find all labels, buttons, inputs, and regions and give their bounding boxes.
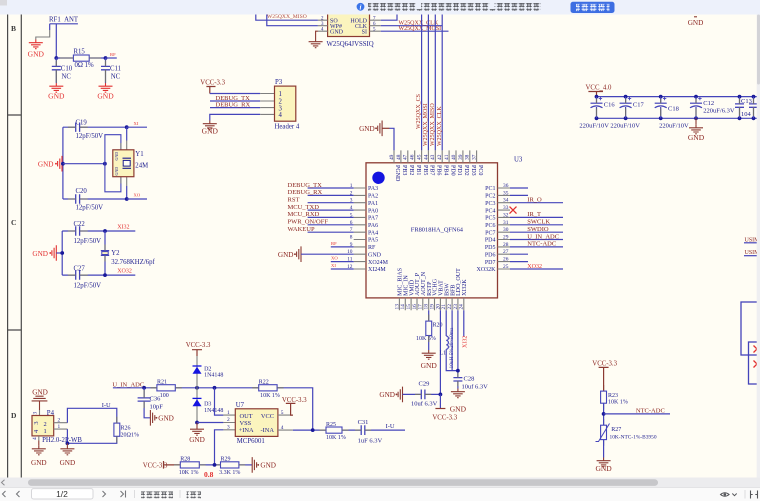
node junction (pin1/gnd) <box>66 441 70 445</box>
svg-text:GND: GND <box>158 414 174 422</box>
wire pin4 to R25 <box>293 429 326 431</box>
wire pin1 <box>210 93 260 95</box>
svg-text:VSS: VSS <box>240 420 252 427</box>
node junction <box>104 56 108 60</box>
svg-text:PA0: PA0 <box>368 208 378 214</box>
svg-text:10K 1%: 10K 1% <box>179 470 199 476</box>
svg-text:GND: GND <box>114 167 119 176</box>
svg-text:24: 24 <box>459 304 465 310</box>
svg-text:W25QXX_MOSI: W25QXX_MOSI <box>423 103 429 146</box>
crystal Y2 32.768KHZ body <box>101 250 156 266</box>
svg-text:GND: GND <box>31 459 47 467</box>
wire R25 to C31 <box>342 429 361 431</box>
net label DEBUG_RX wire (U3 pin2) <box>288 189 354 196</box>
svg-text:0Ω 1%: 0Ω 1% <box>75 62 95 69</box>
svg-text:PD2: PD2 <box>463 165 469 176</box>
net label XO32 wire (pin25) <box>510 264 563 270</box>
svg-text:SWCLK: SWCLK <box>527 219 550 226</box>
net label DEBUG_RX wire <box>210 102 260 109</box>
node junction <box>60 251 64 255</box>
svg-text:PB4: PB4 <box>442 165 448 175</box>
svg-text:RF: RF <box>110 52 116 57</box>
flash GND pin to ground <box>316 31 318 38</box>
wire BSW pin21 down <box>445 310 447 336</box>
svg-text:GND: GND <box>330 30 344 36</box>
ground (C29 left) <box>379 387 402 403</box>
crystal Y1 24M body <box>113 150 148 177</box>
svg-text:R22: R22 <box>259 379 269 385</box>
svg-text:GND: GND <box>189 436 205 444</box>
svg-text:PD6: PD6 <box>485 252 496 258</box>
svg-text:GND: GND <box>97 92 114 101</box>
wire W25QXX_MISO vertical <box>430 14 436 150</box>
svg-text:PWR_ON/OFF: PWR_ON/OFF <box>288 219 329 226</box>
capacitor C31 leads <box>355 429 371 431</box>
svg-text:25: 25 <box>503 264 509 270</box>
svg-text:XI24M: XI24M <box>368 267 386 273</box>
svg-text:12pF/50V: 12pF/50V <box>76 133 104 140</box>
svg-text:PC1: PC1 <box>485 186 495 192</box>
svg-text:3.3K 1%: 3.3K 1% <box>219 470 240 476</box>
net label SWCLK wire (pin31) <box>510 219 563 226</box>
svg-text:1: 1 <box>227 410 230 416</box>
ground (Y1 shield) <box>38 156 62 172</box>
net label MCU_TXD wire (U3 pin4) <box>288 204 354 211</box>
ground (P3) <box>202 121 219 136</box>
svg-text:VCC_4.0: VCC_4.0 <box>586 85 612 92</box>
crystal Y2 vertical wire <box>104 231 106 275</box>
ground (Y2) <box>32 245 56 261</box>
thermistor R27 10K-NTC-1%-B3950 <box>596 424 657 442</box>
wire R27 to gnd <box>603 440 605 458</box>
node junction (NTC-ADC) <box>602 412 606 416</box>
capacitor (right edge, cut) <box>749 97 758 119</box>
wire U3 pin27 <box>510 253 528 255</box>
resistor R15 0R 1% <box>73 49 94 69</box>
svg-text:1uF 6.3V: 1uF 6.3V <box>358 437 383 444</box>
svg-text:8: 8 <box>350 235 353 241</box>
svg-text:43: 43 <box>430 154 436 160</box>
svg-text:-INA: -INA <box>261 427 275 434</box>
opamp U7 pin stubs (left) <box>223 415 235 430</box>
wire +INA down to divider <box>215 430 224 465</box>
capacitor C36 10pF <box>138 388 164 418</box>
ground (NTC) <box>595 458 612 474</box>
flash pin stubs <box>318 20 381 31</box>
svg-text:100: 100 <box>160 393 169 399</box>
svg-text:34: 34 <box>503 198 509 204</box>
svg-text:RF: RF <box>368 245 376 251</box>
bus junctions <box>595 95 756 121</box>
wire R21 to clamp node <box>175 387 258 389</box>
node junction (-INA) <box>311 428 315 432</box>
svg-text:R28: R28 <box>180 456 190 462</box>
svg-text:XO32: XO32 <box>117 269 132 275</box>
ground (PGND pin49) <box>359 121 382 137</box>
U7 right pin numbers <box>281 410 284 431</box>
crystal shield loop wires <box>105 135 121 192</box>
wire opamp OUT up to node <box>215 388 224 415</box>
svg-text:L1: L1 <box>440 351 447 357</box>
wire U3 pin26 <box>510 261 528 263</box>
node junction <box>103 273 107 277</box>
U3 left pin stubs <box>354 188 366 269</box>
svg-text:46: 46 <box>410 154 416 160</box>
svg-text:VCC: VCC <box>261 413 274 420</box>
svg-text:PC4: PC4 <box>485 208 495 214</box>
svg-text:10uf 6.3V: 10uf 6.3V <box>462 384 489 391</box>
wire LDO_OUT pin23 down <box>457 310 459 377</box>
net label XO wire <box>127 193 147 199</box>
crystal XI/XO vertical wire <box>126 127 128 199</box>
svg-text:10K 1%: 10K 1% <box>260 393 280 399</box>
svg-text:2: 2 <box>227 417 230 423</box>
svg-text:SWDIO: SWDIO <box>527 226 549 233</box>
resistor R29 leads <box>217 464 246 466</box>
svg-text:0.8: 0.8 <box>204 470 214 479</box>
svg-text:NTC-ADC: NTC-ADC <box>527 241 556 248</box>
U3 body <box>366 163 498 298</box>
wire SI with net label W25QXX_MOSI <box>381 26 449 32</box>
ground (P4 pin1) <box>60 443 76 467</box>
svg-text:MCU_TXD: MCU_TXD <box>288 204 320 211</box>
svg-text:R29: R29 <box>221 456 231 462</box>
svg-text:GND: GND <box>359 125 375 133</box>
svg-text:36: 36 <box>503 183 509 189</box>
wire R28-R29 <box>199 464 220 466</box>
svg-text:3: 3 <box>33 421 40 424</box>
net label MCU_RXD wire (U3 pin5) <box>288 211 354 218</box>
capacitor C11 leads <box>105 61 107 83</box>
svg-text:2: 2 <box>58 418 61 424</box>
svg-text:PB2: PB2 <box>408 165 414 175</box>
wire U3 pin36 <box>510 187 528 189</box>
svg-text:30: 30 <box>503 227 509 233</box>
svg-text:4: 4 <box>281 425 284 431</box>
svg-text:PC7: PC7 <box>485 230 495 236</box>
wire CLK with net label W25QXX_CLK <box>381 20 442 26</box>
svg-text:PC6: PC6 <box>485 223 495 229</box>
wire W25QXX_CS vertical <box>416 14 422 150</box>
svg-text:R26: R26 <box>121 426 131 432</box>
U3 top pin stubs <box>394 150 477 162</box>
svg-text:PB7: PB7 <box>429 165 435 175</box>
resistor R23 leads <box>603 385 605 410</box>
svg-text:IR_O: IR_O <box>527 197 542 204</box>
wire R29 to gnd <box>239 464 252 466</box>
net label IR_T wire (pin32) <box>510 211 563 218</box>
svg-text:220uF/10V: 220uF/10V <box>579 123 609 130</box>
svg-text:D2: D2 <box>204 366 211 372</box>
svg-text:PC3: PC3 <box>485 201 495 207</box>
sense loop wire (pin2 up over to R26) <box>67 408 116 423</box>
power flag VCC_4.0 <box>586 85 612 97</box>
ground (flash) <box>309 39 323 48</box>
svg-text:C11: C11 <box>110 65 121 72</box>
ground (antenna) <box>28 40 45 59</box>
ground (R20) <box>421 350 438 370</box>
svg-text:PC2: PC2 <box>485 194 495 200</box>
ground (C36, sideways) <box>150 410 173 426</box>
U3 top pin numbers <box>389 154 478 160</box>
ground (C10) <box>48 83 65 101</box>
svg-text:D: D <box>11 411 17 420</box>
ground (R29, sideways) <box>252 457 276 473</box>
power flag VCC-3.3 (NTC) <box>592 360 617 391</box>
svg-text:GND: GND <box>32 250 48 258</box>
net label U_IN_ADC wire (pin29) <box>510 233 563 240</box>
svg-text:XI32K: XI32K <box>462 279 468 296</box>
wire gnd to crystal shield loop <box>63 163 105 165</box>
svg-text:1N4148: 1N4148 <box>204 373 223 379</box>
svg-text:B: B <box>11 24 16 33</box>
svg-text:U3: U3 <box>514 157 523 164</box>
svg-text:GND: GND <box>38 161 54 169</box>
svg-text:IR_T: IR_T <box>527 211 541 218</box>
svg-text:R27: R27 <box>611 427 621 433</box>
svg-text:1: 1 <box>279 91 282 98</box>
power flag VCC-3.3 (U7 pin5) <box>282 397 307 415</box>
svg-text:I-U: I-U <box>386 423 395 430</box>
svg-text:R15: R15 <box>74 49 86 56</box>
svg-text:2: 2 <box>44 421 47 428</box>
net label SWDIO wire (pin30) <box>510 226 563 233</box>
svg-text:GND: GND <box>688 133 705 142</box>
diode D2 1N4148 <box>193 356 224 388</box>
node junction (opamp out tap) <box>213 386 217 390</box>
P4 pin3 stub <box>39 410 41 416</box>
sense loop wire (R26 down back to pin1) <box>67 429 116 443</box>
svg-text:PC5: PC5 <box>485 216 495 222</box>
no-connect X (pin33) <box>510 207 517 214</box>
capacitor C19 12pF/50V <box>63 120 127 140</box>
wire pin10 <box>301 253 354 255</box>
svg-text:GND: GND <box>450 405 467 414</box>
svg-text:49: 49 <box>389 154 395 160</box>
svg-text:RF: RF <box>331 241 337 246</box>
svg-text:VCC-3.3: VCC-3.3 <box>200 80 225 87</box>
svg-text:PD1: PD1 <box>456 165 462 176</box>
svg-text:W25Q64JVSSIQ: W25Q64JVSSIQ <box>327 41 374 48</box>
svg-text:NC: NC <box>62 73 72 80</box>
svg-text:XO24M: XO24M <box>368 260 389 266</box>
svg-text:4: 4 <box>279 112 283 119</box>
wire R22 to -INA <box>277 388 313 430</box>
net label NTC-ADC wire <box>604 408 670 415</box>
capacitor C28 leads <box>457 373 459 387</box>
P3 pin numbers <box>279 91 283 119</box>
resistor R22 leads <box>252 387 283 389</box>
U7 pin names <box>239 413 275 434</box>
svg-text:R20: R20 <box>433 323 443 329</box>
net label DEBUG_TX wire <box>210 95 260 102</box>
resistor R20 10K 5% <box>416 321 443 342</box>
svg-text:W25QXX_MISO: W25QXX_MISO <box>430 103 436 146</box>
sub-circuit box 1 (cut at edge) <box>741 302 760 355</box>
wire gnd to vertical <box>56 252 62 254</box>
net label I-U wire (C31 out) <box>365 423 405 430</box>
svg-text:Header 4: Header 4 <box>275 123 300 130</box>
resistor R26 leads <box>116 417 118 443</box>
svg-text:C31: C31 <box>358 419 369 426</box>
capacitor C29 10uf 6.3V <box>403 381 441 408</box>
svg-text:XO32K: XO32K <box>477 267 497 273</box>
svg-text:35: 35 <box>503 190 509 196</box>
svg-text:U7: U7 <box>236 402 245 409</box>
U3 bottom pin stubs <box>399 298 463 310</box>
svg-text:XI: XI <box>134 121 139 126</box>
svg-text:VCC-3.3: VCC-3.3 <box>282 397 307 404</box>
svg-text:VCC-3.3: VCC-3.3 <box>186 342 211 349</box>
sheet frame border <box>8 14 22 478</box>
no-connect X (edge box pin a) <box>754 346 760 353</box>
net label USIM wire 2 <box>744 250 760 256</box>
resistor R21 leads <box>151 387 182 389</box>
svg-text:GND: GND <box>595 464 612 473</box>
svg-text:32: 32 <box>503 212 509 218</box>
svg-text:C17: C17 <box>633 102 645 109</box>
flash pin numbers <box>321 16 376 32</box>
net label XI wire (U3 pin12) <box>331 263 354 269</box>
wire to SO <box>256 14 318 20</box>
wire R20 to gnd <box>428 336 430 351</box>
resistor R28 leads <box>174 464 206 466</box>
node junction <box>54 56 58 60</box>
power flag VCC-3.3 (inverted, below) <box>432 394 457 421</box>
svg-text:GND: GND <box>48 92 65 101</box>
P4 inside pin numbers <box>33 421 47 435</box>
svg-text:XO32: XO32 <box>527 264 542 270</box>
capacitor C12 220uF/6.3V <box>690 97 735 119</box>
svg-text:3: 3 <box>33 412 39 415</box>
net label PWR_ON/OFF wire (U3 pin6) <box>288 219 354 226</box>
svg-text:45: 45 <box>417 154 423 160</box>
crystal Y2 leads <box>104 245 106 262</box>
svg-text:PA2: PA2 <box>368 194 378 200</box>
ground (P4 pin4) <box>31 441 47 467</box>
notification bar <box>0 0 760 15</box>
svg-text:RF1 ANT: RF1 ANT <box>49 17 79 24</box>
connector P4 body <box>32 416 54 436</box>
node junction <box>103 229 107 233</box>
wire U3 pin35 <box>510 194 528 196</box>
capacitor C10 leads <box>55 61 57 83</box>
thermistor R27 leads <box>603 419 605 446</box>
svg-text:44: 44 <box>423 154 429 160</box>
capacitor C12 leads <box>695 99 697 116</box>
resistor R15 leads <box>60 57 101 59</box>
wire <box>89 57 105 59</box>
svg-text:DEBUG_TX: DEBUG_TX <box>288 182 323 189</box>
svg-text:38: 38 <box>465 154 471 160</box>
wire PGND <box>390 128 395 150</box>
svg-text:GND: GND <box>260 462 276 470</box>
resistor R20 leads <box>428 315 430 343</box>
node junction (gnd/left wire) <box>61 162 65 166</box>
svg-text:GND: GND <box>28 50 45 59</box>
svg-text:U_IN_ADC: U_IN_ADC <box>527 233 559 240</box>
P4 pin4 stub to ground <box>38 436 40 441</box>
wire pin4 to ground <box>210 114 260 120</box>
node junction (0.8V ref) <box>213 463 217 467</box>
svg-text:PA7: PA7 <box>368 216 378 222</box>
svg-text:W25QXX_MISO: W25QXX_MISO <box>267 14 307 20</box>
svg-text:GND: GND <box>368 252 382 258</box>
bottom toolbar <box>0 488 760 501</box>
svg-text:12pF/50V: 12pF/50V <box>74 238 102 245</box>
wire BFB pin22 down <box>451 310 453 370</box>
svg-text:PD3: PD3 <box>470 165 476 176</box>
svg-text:10pF: 10pF <box>150 403 164 410</box>
svg-text:GND: GND <box>114 152 119 161</box>
svg-text:PB6: PB6 <box>436 165 442 175</box>
svg-text:12pF/50V: 12pF/50V <box>76 205 104 212</box>
wire VBAT pin20 down <box>439 310 441 394</box>
node junction (VSS/gnd) <box>195 421 199 425</box>
top bus wire <box>597 96 760 98</box>
wire W25QXX_CLK vertical <box>437 14 443 150</box>
node XO junction <box>125 197 129 201</box>
svg-text:10K 5%: 10K 5% <box>416 336 436 342</box>
svg-text:40: 40 <box>451 154 457 160</box>
svg-text:C18: C18 <box>668 105 679 112</box>
net label NTC-ADC wire (pin28) <box>510 241 563 248</box>
svg-text:PC0: PC0 <box>477 165 483 175</box>
svg-text:41: 41 <box>444 154 450 160</box>
node junction (LDO output) <box>456 369 460 373</box>
opamp U7 pin stubs (right) <box>278 415 293 430</box>
svg-text:104: 104 <box>741 111 752 118</box>
svg-text:P3: P3 <box>275 79 283 86</box>
ground (D3/VSS) <box>189 423 205 445</box>
wire W25QXX_MOSI vertical <box>423 14 429 150</box>
svg-text:32.768KHZ/6pf: 32.768KHZ/6pf <box>111 259 155 266</box>
ground (top right, mostly hidden by banner) <box>688 17 704 27</box>
svg-text:20Ω1%: 20Ω1% <box>121 433 139 439</box>
resistor R25 10K 1% <box>326 422 346 441</box>
svg-text:R23: R23 <box>608 393 618 399</box>
U3 right pin names <box>477 186 497 273</box>
svg-text:R21: R21 <box>157 379 167 385</box>
net label RST wire (U3 pin3) <box>288 197 354 204</box>
svg-text:PB3: PB3 <box>401 165 407 175</box>
resistor R26 20R 1% <box>114 423 139 438</box>
pin names inside flash <box>330 19 368 36</box>
left vertical wire C19-C20 <box>62 127 64 199</box>
svg-text:PA4: PA4 <box>368 230 378 236</box>
capacitor C27 leads <box>68 274 88 276</box>
net label XO wire (U3 pin11) <box>331 256 354 262</box>
svg-text:GND: GND <box>688 19 704 27</box>
svg-text:PA3: PA3 <box>368 186 378 192</box>
svg-text:C19: C19 <box>76 120 88 127</box>
svg-text:C12: C12 <box>703 100 714 107</box>
wire L1 to output node <box>446 349 458 370</box>
ground (C28) <box>450 389 467 414</box>
ground (cap bank) <box>688 118 705 142</box>
svg-text:XI32: XI32 <box>117 224 129 230</box>
svg-text:10K 1%: 10K 1% <box>608 399 628 405</box>
node junction (C36 tap) <box>142 386 146 390</box>
wire R23 to node <box>603 403 605 425</box>
svg-text:GND: GND <box>379 391 395 399</box>
svg-text:C: C <box>11 218 16 227</box>
capacitor C27 12pF/50V <box>62 265 135 289</box>
capacitor C17 220uF/10V <box>610 97 644 130</box>
net label XI32 vertical wire (pin24) <box>462 310 468 348</box>
no-connect X (edge box pin b) <box>754 361 760 368</box>
svg-text:PB5: PB5 <box>422 165 428 175</box>
